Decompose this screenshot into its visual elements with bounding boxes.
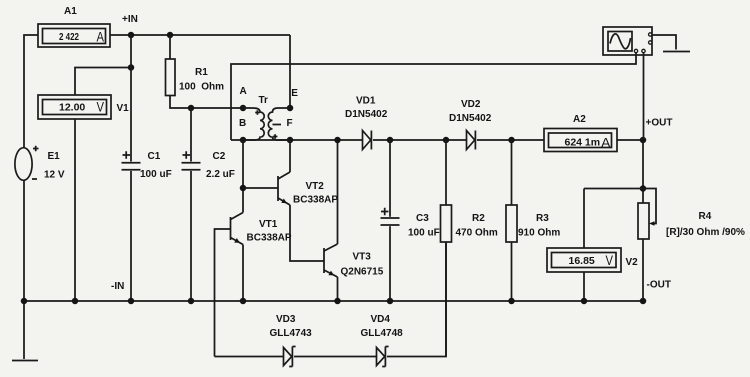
svg-text:GLL4743: GLL4743 bbox=[270, 328, 313, 339]
svg-text:R3: R3 bbox=[536, 213, 549, 224]
wire E1 bottom to -IN bbox=[23, 181, 25, 302]
source E1 bbox=[15, 146, 39, 180]
resistor R1 bbox=[166, 59, 176, 96]
svg-text:A: A bbox=[601, 135, 611, 151]
svg-text:100 Ohm: 100 Ohm bbox=[179, 82, 224, 93]
svg-text:R4: R4 bbox=[699, 211, 712, 222]
svg-text:C1: C1 bbox=[148, 151, 161, 162]
transformer F tap bbox=[273, 124, 282, 126]
voltmeter V2 bbox=[547, 248, 621, 272]
resistor R3 bbox=[506, 205, 517, 242]
transistor VT2 bbox=[278, 172, 290, 205]
node V1 tap bbox=[128, 64, 135, 71]
node -IN C3 bbox=[387, 298, 394, 305]
svg-text:VD2: VD2 bbox=[461, 99, 481, 110]
svg-text:E: E bbox=[291, 88, 298, 99]
svg-text:VD4: VD4 bbox=[371, 314, 391, 325]
wire V2 top lead bbox=[583, 189, 585, 249]
wire C2 top lead bbox=[190, 108, 192, 162]
node E terminal bbox=[287, 105, 294, 112]
wire VT3 collector bbox=[337, 140, 339, 244]
node -IN C1 bbox=[128, 298, 135, 305]
node C2 tap bbox=[188, 105, 195, 112]
transformer polarity marks bbox=[255, 110, 277, 139]
wire VT2 base lead bbox=[243, 187, 278, 189]
svg-text:BC338AP: BC338AP bbox=[247, 233, 292, 244]
rail segment A2 to +OUT bbox=[617, 139, 643, 141]
svg-text:GLL4748: GLL4748 bbox=[361, 328, 404, 339]
zener loop wire right bbox=[387, 242, 446, 357]
svg-text:-IN: -IN bbox=[111, 281, 124, 292]
zener loop wire middle bbox=[294, 356, 376, 358]
svg-text:V1: V1 bbox=[117, 103, 130, 114]
wire +IN rail down to transformer E bbox=[289, 35, 291, 108]
wire V1 bottom to -IN rail bbox=[74, 119, 76, 301]
wire R2 bottom through -IN to zener loop bbox=[445, 242, 447, 357]
svg-text:2.2 uF: 2.2 uF bbox=[206, 169, 235, 180]
voltmeter V1 bbox=[38, 95, 111, 119]
wire C3 top lead bbox=[389, 140, 391, 217]
wire R1 top lead bbox=[169, 35, 171, 59]
capacitor C1 bbox=[122, 151, 141, 169]
svg-text:V: V bbox=[97, 99, 105, 115]
ground scope bbox=[663, 51, 690, 53]
wire +OUT down to R4 tap bbox=[642, 140, 644, 203]
rail segment VD1 to VD2 bbox=[373, 139, 466, 141]
resistor R2 bbox=[441, 205, 452, 242]
svg-text:D1N5402: D1N5402 bbox=[449, 113, 492, 124]
svg-text:100 uF: 100 uF bbox=[408, 228, 440, 239]
svg-text:910 Ohm: 910 Ohm bbox=[518, 228, 560, 239]
node VT3 collector rail bbox=[334, 137, 341, 144]
svg-text:A2: A2 bbox=[573, 114, 586, 125]
svg-text:V2: V2 bbox=[626, 257, 639, 268]
diode VD1 bbox=[363, 131, 372, 150]
node R3 rail bbox=[508, 137, 515, 144]
svg-text:VT2: VT2 bbox=[306, 181, 325, 192]
svg-text:VT3: VT3 bbox=[353, 252, 372, 263]
transformer Tr primary winding bbox=[243, 108, 264, 140]
potentiometer R4 bbox=[638, 189, 656, 240]
node -IN C2 bbox=[188, 298, 195, 305]
wire top-left from A1 to E1 column bbox=[24, 35, 38, 148]
svg-text:16.85: 16.85 bbox=[569, 255, 595, 267]
svg-text:100 uF: 100 uF bbox=[140, 169, 172, 180]
wire voltmeter V1 top tap bbox=[75, 68, 131, 96]
zener loop wire left bbox=[215, 356, 284, 358]
svg-text:F: F bbox=[287, 118, 293, 129]
svg-text:12.00: 12.00 bbox=[59, 102, 85, 114]
svg-text:D1N5402: D1N5402 bbox=[345, 109, 388, 120]
wire VT1 base lead bbox=[215, 229, 231, 357]
svg-text:VD3: VD3 bbox=[276, 314, 296, 325]
svg-text:470 Ohm: 470 Ohm bbox=[456, 228, 498, 239]
svg-text:B: B bbox=[239, 118, 246, 129]
wire VT2 collector bbox=[289, 140, 291, 172]
svg-text:2 422: 2 422 bbox=[59, 31, 79, 43]
svg-text:C3: C3 bbox=[416, 213, 429, 224]
svg-text:A: A bbox=[240, 86, 247, 97]
main output rail segment 1 bbox=[231, 139, 362, 141]
wire VT3 emitter to -IN bbox=[337, 277, 339, 301]
transformer Tr secondary winding bbox=[268, 108, 290, 140]
node -IN R3 bbox=[508, 298, 515, 305]
wire C3 bottom to -IN bbox=[389, 226, 391, 301]
node secondary bottom terminal bbox=[287, 137, 294, 144]
svg-text:+IN: +IN bbox=[122, 14, 138, 25]
zener diode VD3 bbox=[284, 347, 296, 367]
wire VT2 emitter to VT3 base bbox=[290, 205, 324, 261]
wire C1 bottom to -IN bbox=[130, 171, 132, 301]
svg-text:Tr: Tr bbox=[259, 95, 269, 106]
svg-text:A: A bbox=[97, 29, 105, 45]
wire R1 bottom to transformer A bbox=[170, 96, 243, 109]
wire VT1 collector to B bbox=[242, 140, 244, 213]
capacitor C2 bbox=[182, 151, 201, 169]
wire R4 bottom to -OUT bbox=[642, 239, 644, 301]
node A terminal bbox=[240, 105, 247, 112]
node C3 rail bbox=[387, 137, 394, 144]
wire scope to ground bbox=[652, 35, 676, 50]
wire V2 tap horizontal bbox=[584, 188, 643, 190]
transistor VT3 bbox=[324, 244, 338, 277]
diode VD2 bbox=[467, 131, 476, 150]
svg-text:12 V: 12 V bbox=[44, 170, 65, 181]
wire C1 column upper bbox=[130, 35, 132, 162]
ground bbox=[12, 360, 38, 362]
transistor VT1 bbox=[231, 213, 244, 245]
svg-text:+OUT: +OUT bbox=[646, 118, 673, 129]
svg-text:R2: R2 bbox=[472, 213, 485, 224]
ammeter A2 bbox=[544, 129, 617, 152]
oscilloscope XSC bbox=[603, 27, 652, 55]
wire oscilloscope probe to transformer B corner bbox=[231, 53, 636, 140]
svg-text:E1: E1 bbox=[48, 151, 61, 162]
node +OUT bbox=[640, 137, 647, 144]
ammeter A1 bbox=[38, 24, 110, 47]
svg-text:BC338AP: BC338AP bbox=[293, 195, 338, 206]
-IN rail bbox=[24, 300, 643, 302]
node -IN E1 bbox=[21, 298, 28, 305]
svg-text:Q2N6715: Q2N6715 bbox=[341, 267, 384, 278]
node VT2 base tap bbox=[240, 185, 247, 192]
node +IN bbox=[128, 32, 135, 39]
svg-text:VD1: VD1 bbox=[356, 96, 376, 107]
node -OUT R4 bbox=[640, 298, 647, 305]
wire ground lead bbox=[23, 301, 25, 359]
rail segment VD2 to A2 bbox=[477, 139, 544, 141]
svg-text:VT1: VT1 bbox=[259, 219, 278, 230]
wire R3 top lead bbox=[511, 140, 513, 205]
node R1 top junction bbox=[167, 32, 174, 39]
node R4 tap bbox=[640, 185, 647, 192]
wire A1 to +IN rail bbox=[110, 34, 290, 36]
capacitor C3 bbox=[381, 208, 400, 225]
node B terminal bbox=[240, 137, 247, 144]
svg-text:A1: A1 bbox=[64, 6, 77, 17]
wire VT1 emitter to -IN bbox=[242, 245, 244, 302]
svg-text:-OUT: -OUT bbox=[647, 280, 671, 291]
zener diode VD4 bbox=[377, 347, 389, 367]
wire R3 bottom to -IN bbox=[511, 242, 513, 301]
node -IN VT1 emitter bbox=[240, 298, 247, 305]
svg-text:R1: R1 bbox=[195, 67, 208, 78]
svg-text:C2: C2 bbox=[213, 151, 226, 162]
node -IN V1 bbox=[72, 298, 79, 305]
node -IN VT3 emitter bbox=[334, 298, 341, 305]
svg-text:[R]/30 Ohm /90%: [R]/30 Ohm /90% bbox=[666, 227, 745, 238]
wire C2 bottom to -IN bbox=[190, 171, 192, 301]
wire V2 bottom to -OUT bbox=[583, 272, 585, 301]
wire scope right probe down to +OUT bbox=[643, 53, 645, 140]
node -OUT V2 bbox=[581, 298, 588, 305]
node R2 rail bbox=[443, 137, 450, 144]
svg-text:624 1m: 624 1m bbox=[565, 137, 601, 149]
wire R2 top lead bbox=[445, 140, 447, 205]
svg-text:V: V bbox=[606, 252, 614, 268]
